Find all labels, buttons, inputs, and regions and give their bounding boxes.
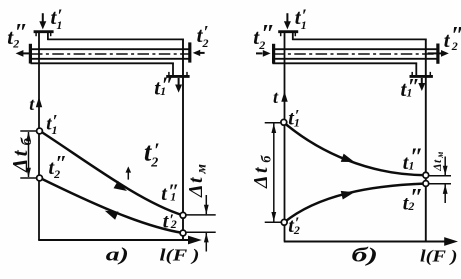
plot A dimension Delta-t-m upper arrowhead <box>204 205 209 215</box>
plot A curve t1 <box>40 131 183 215</box>
plot A label Delta-t-m rotated <box>185 164 210 198</box>
plot A dimension Delta-t-m lower stem <box>205 233 207 252</box>
exchanger A inlet arrow t1prime <box>39 13 46 29</box>
plot A dimension tick at t1dblprime <box>183 214 216 216</box>
plot B dimension tick at t2prime <box>265 221 285 223</box>
plot B t-axis label <box>273 87 279 107</box>
plot B point t1prime <box>281 119 287 125</box>
plot B dimension Delta-t-m lower stem <box>444 184 446 203</box>
svg-text:l(F ): l(F ) <box>420 247 458 266</box>
exchanger A shell outer bottom wall <box>31 62 174 64</box>
plot B label t1dblprime <box>403 145 424 175</box>
label t1dblprime at exchanger B outlet <box>401 74 420 102</box>
plot A dimension tick at t2prime <box>183 231 216 233</box>
exchanger B right flange <box>436 44 439 64</box>
svg-text:1: 1 <box>170 190 176 204</box>
plot B dimension arrowhead top <box>271 123 276 133</box>
plot A curve t1 flow arrowhead <box>114 181 130 195</box>
svg-text:2: 2 <box>202 36 209 50</box>
exchanger A shell outer top wall <box>47 38 184 40</box>
exchanger B inlet arrow t1prime <box>284 13 291 29</box>
svg-text:м: м <box>435 152 445 159</box>
exchanger B left entry arrow t2dblprime <box>256 50 271 57</box>
exchanger A inlet flange tick right <box>50 33 52 36</box>
exchanger A inlet stub flange bar <box>34 30 54 33</box>
svg-text:2: 2 <box>293 223 300 237</box>
plot A dimension Delta-t-m upper stem <box>205 195 207 214</box>
exchanger A outlet flange tick right <box>186 72 188 75</box>
plot B dimension arrowhead bottom <box>271 212 276 222</box>
plot B point t1dblprime <box>423 172 429 178</box>
plot B panel label b) <box>352 245 379 267</box>
svg-text:1: 1 <box>406 86 412 100</box>
exchanger B shell right end wall + plot boundary wire <box>425 39 427 242</box>
plot A region label t2prime <box>144 138 160 171</box>
svg-text:Δt: Δt <box>185 176 207 198</box>
svg-text:t: t <box>273 87 279 107</box>
plot B dimension tick at t1prime <box>265 122 285 124</box>
plot A label t2prime at point <box>163 211 177 233</box>
plot A label Delta-t-b rotated <box>8 137 35 173</box>
exchanger B inlet stub right wall <box>292 32 294 41</box>
plot A dimension stem Delta-t-b <box>28 132 30 177</box>
svg-text:2: 2 <box>150 156 158 171</box>
label t1dblprime at exchanger A outlet <box>154 72 173 100</box>
plot B x-axis arrowhead <box>444 237 458 246</box>
exchanger A outlet stub flange bar <box>166 75 189 78</box>
label t2dblprime at exchanger A left end <box>7 20 28 51</box>
exchanger B inlet stub flange bar <box>278 30 298 33</box>
svg-text:1: 1 <box>301 18 307 32</box>
plot B label Delta-t-b rotated <box>250 155 275 189</box>
plot A x-axis label l(F) <box>160 246 200 265</box>
svg-text:1: 1 <box>408 159 414 173</box>
plot B curve t2 <box>284 184 426 223</box>
plot B dimension stem Delta-t-b <box>273 124 275 222</box>
plot A curve t2 <box>40 178 183 233</box>
svg-text:1: 1 <box>294 115 300 129</box>
plot A dimension arrowhead bottom <box>26 168 31 178</box>
plot B dimension tick at t2dblprime <box>426 183 451 185</box>
exchanger B outlet stub left wall <box>415 63 417 76</box>
plot A dimension Delta-t-m lower arrowhead <box>204 233 209 243</box>
exchanger B shell outer top wall <box>292 38 426 40</box>
plot A curve t2 flow arrowhead <box>103 207 118 220</box>
exchanger B outlet stub flange bar <box>410 75 433 78</box>
svg-text:б): б) <box>352 245 379 267</box>
exchanger A right flange <box>188 42 191 62</box>
svg-text:б: б <box>19 137 35 145</box>
exchanger B inner tube bottom wall <box>273 58 439 60</box>
plot B curve t1 flow arrowhead <box>341 154 356 167</box>
plot A dimension tick at t2dblprime <box>20 177 39 179</box>
plot A small up arrow <box>126 166 132 179</box>
svg-text:1: 1 <box>52 123 58 137</box>
plot B point t2dblprime <box>423 181 429 187</box>
plot B dimension Delta-t-m lower arrowhead <box>443 184 448 194</box>
exchanger B outlet arrow t1dblprime <box>418 78 425 91</box>
exchanger A inner tube top wall <box>31 48 191 50</box>
exchanger B inlet flange tick left <box>280 33 282 36</box>
svg-text:Δt: Δt <box>8 148 32 173</box>
exchanger A outlet stub left wall <box>172 63 174 76</box>
exchanger B left flange <box>272 44 275 64</box>
plot A panel label a) <box>106 245 129 266</box>
label t2dblprime at exchanger B left end <box>253 21 275 53</box>
plot A x-axis wire <box>38 239 196 241</box>
svg-text:2: 2 <box>407 199 414 213</box>
plot A label t1prime <box>46 111 57 137</box>
exchanger A inner tube bottom wall <box>31 58 191 60</box>
svg-text:1: 1 <box>56 18 62 32</box>
exchanger A centerline <box>31 53 190 55</box>
plot B dimension Delta-t-m upper arrowhead <box>443 166 448 176</box>
plot A t-axis label <box>29 94 35 114</box>
svg-text:t: t <box>444 28 451 52</box>
plot A point t1prime <box>37 128 43 134</box>
exchanger A inlet flange tick left <box>35 33 37 36</box>
exchanger A right entry arrow t2prime <box>193 50 205 56</box>
exchanger A left exit arrow t2dblprime <box>16 50 29 57</box>
plot A t-axis arrowhead <box>36 97 42 107</box>
exchanger B shell outer bottom wall <box>273 62 418 64</box>
plot A dimension arrowhead top <box>26 132 31 142</box>
plot A x-axis arrowhead <box>188 236 202 245</box>
plot A label t2dblprime <box>49 151 68 181</box>
svg-text:2: 2 <box>258 38 265 52</box>
exchanger B inner tube top wall <box>273 48 439 50</box>
svg-text:Δt: Δt <box>432 159 444 172</box>
label t2dblprime at exchanger B right end <box>444 23 461 53</box>
svg-text:1: 1 <box>160 84 166 98</box>
exchanger B centerline <box>273 53 438 55</box>
exchanger B outlet flange tick left <box>411 72 413 75</box>
svg-text:Δt: Δt <box>250 165 272 189</box>
plot B x-axis label l(F) <box>420 247 458 266</box>
exchanger B outlet flange tick right <box>429 72 431 75</box>
label t2prime at exchanger A right end <box>197 22 209 50</box>
exchanger A inlet stub right wall <box>47 32 49 41</box>
plot A dimension tick at t1prime <box>20 130 39 132</box>
plot B curve t1 <box>284 123 426 176</box>
svg-text:2: 2 <box>451 39 458 53</box>
svg-text:а): а) <box>106 245 129 266</box>
exchanger B inlet flange tick right <box>294 33 296 36</box>
exchanger B inlet stub left wall + t-axis wire <box>284 32 286 242</box>
plot B dimension tick at t1dblprime <box>426 175 451 177</box>
plot A point t2dblprime <box>37 175 43 181</box>
plot B dimension Delta-t-m upper stem <box>444 157 446 176</box>
plot B label t1prime <box>288 107 300 129</box>
svg-text:2: 2 <box>12 37 19 51</box>
label t1prime at exchanger A inlet <box>51 5 63 32</box>
svg-text:м: м <box>195 164 210 175</box>
plot B point t2prime <box>281 219 287 225</box>
exchanger A outlet flange tick left <box>168 72 170 75</box>
plot B label t2dblprime <box>403 185 424 215</box>
plot A point t1dblprime <box>180 212 186 218</box>
exchanger A shell right end wall + plot boundary wire <box>182 39 184 240</box>
svg-text:t: t <box>29 94 35 114</box>
plot B curve t2 flow arrowhead <box>341 188 356 200</box>
plot A point t2prime <box>180 230 186 236</box>
plot B label Delta-t-m rotated <box>432 152 445 172</box>
exchanger A inlet stub left wall + t-axis wire <box>38 32 40 241</box>
svg-text:l(F ): l(F ) <box>160 246 200 265</box>
svg-text:2: 2 <box>170 217 177 231</box>
exchanger A left flange <box>29 44 32 64</box>
svg-text:б: б <box>260 155 275 163</box>
svg-text:2: 2 <box>53 167 60 181</box>
exchanger A outlet arrow t1dblprime <box>175 78 182 93</box>
label t1prime at exchanger B inlet <box>295 5 307 32</box>
plot A label t1dblprime <box>161 181 179 206</box>
svg-text:t: t <box>161 183 168 205</box>
plot B t-axis arrowhead <box>281 91 287 101</box>
plot B x-axis wire <box>284 240 452 242</box>
plot B label t2prime <box>288 215 300 237</box>
exchanger B right exit arrow t2dblprime <box>428 50 449 57</box>
